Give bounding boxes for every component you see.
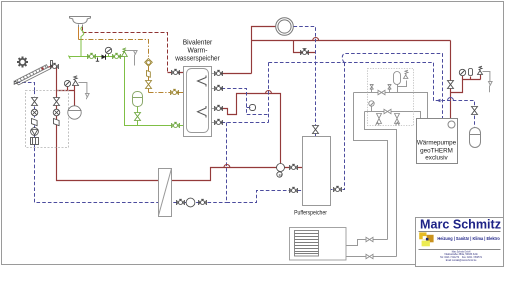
svg-text:Marc Schmitz: Marc Schmitz (420, 217, 501, 232)
svg-text:wasserspeicher: wasserspeicher (174, 56, 220, 63)
svg-text:Warm-: Warm- (188, 48, 208, 55)
svg-text:exclusiv: exclusiv (425, 155, 448, 162)
svg-text:M: M (279, 173, 282, 177)
svg-text:geoTHERM: geoTHERM (420, 148, 453, 155)
svg-text:Bivalenter: Bivalenter (183, 40, 213, 47)
svg-text:Pufferspeicher: Pufferspeicher (294, 210, 327, 217)
svg-text:Wärmepumpe: Wärmepumpe (417, 140, 457, 147)
svg-text:Heizung | Sanitär | Klima | El: Heizung | Sanitär | Klima | Elektro (437, 236, 500, 241)
